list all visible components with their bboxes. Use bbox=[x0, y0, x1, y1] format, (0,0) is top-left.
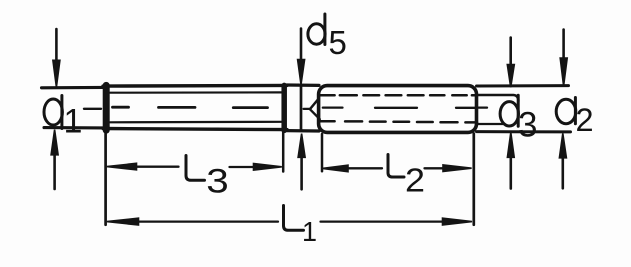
body bottom root line bbox=[110, 121, 283, 124]
dimension d1 top arrow bbox=[55, 29, 58, 61]
sleeve bottom dashed thread line bbox=[320, 121, 477, 122]
dimension d2 bottom arrow bbox=[559, 133, 566, 157]
cone point center dash bbox=[304, 108, 310, 110]
sleeve center dashed line bbox=[323, 106, 476, 109]
L1 dimension line bbox=[138, 220, 452, 222]
L3 left arrowhead bbox=[107, 163, 137, 170]
svg-text:1: 1 bbox=[302, 216, 317, 247]
L1 right arrowhead bbox=[443, 218, 473, 225]
cone point chevron bbox=[310, 99, 320, 120]
left pin bottom outline bbox=[44, 126, 104, 129]
left pin center line dash bbox=[84, 108, 101, 110]
label d3 letter d bbox=[500, 102, 518, 126]
right step pin bottom line (d3) bbox=[477, 123, 504, 125]
svg-text:5: 5 bbox=[329, 24, 347, 61]
body bottom outline bbox=[103, 129, 287, 130]
right step pin top line (d3) bbox=[477, 95, 519, 101]
label d1 letter d bbox=[44, 99, 62, 125]
body center line dash 2 bbox=[159, 106, 196, 109]
L3 left extension line bbox=[104, 131, 107, 225]
right step outer top line (d2) bbox=[477, 84, 569, 87]
label d5 letter d bbox=[308, 24, 325, 44]
right step outer bottom line (d2) bbox=[477, 130, 571, 133]
L2 right arrowhead bbox=[443, 165, 472, 172]
dimension d2 top arrow bbox=[562, 30, 565, 59]
d5 line crossing neck bbox=[300, 86, 303, 130]
sleeve rounded outline bbox=[319, 86, 477, 133]
L1 left arrowhead bbox=[107, 218, 139, 225]
dimension d3 bottom arrow bbox=[507, 132, 514, 157]
body top outline bbox=[103, 84, 287, 88]
svg-text:1: 1 bbox=[64, 102, 83, 140]
body left end bar bbox=[103, 85, 110, 130]
body right end bar bbox=[281, 85, 287, 130]
neck top outline bbox=[287, 83, 320, 87]
dimension d5 top arrow bbox=[300, 29, 303, 61]
svg-text:2: 2 bbox=[405, 162, 425, 199]
left pin top outline bbox=[42, 86, 105, 90]
dimension d5 bottom arrow bbox=[298, 134, 305, 158]
L2 left arrowhead bbox=[322, 165, 348, 172]
body top root line bbox=[110, 91, 283, 93]
label L1 letter L bbox=[284, 206, 304, 231]
L3 dimension line bbox=[135, 166, 255, 169]
body center line dash 3 bbox=[233, 106, 267, 109]
dimension d1 bottom arrow bbox=[51, 130, 58, 155]
dimension d3 top arrow bbox=[509, 38, 512, 66]
sleeve top dashed thread line bbox=[319, 94, 476, 97]
L2 dimension line bbox=[347, 167, 444, 169]
right step center dash bbox=[478, 106, 488, 108]
L3 right extension line bbox=[282, 132, 285, 172]
label L2 letter L bbox=[388, 155, 404, 178]
body center line dash 1 bbox=[113, 106, 129, 109]
label d2 letter d bbox=[556, 99, 576, 123]
neck bottom outline bbox=[287, 129, 320, 133]
svg-text:2: 2 bbox=[576, 102, 594, 138]
L2 left extension line bbox=[321, 134, 324, 171]
svg-text:3: 3 bbox=[518, 106, 537, 145]
label L3 letter L bbox=[186, 156, 205, 181]
svg-text:3: 3 bbox=[206, 163, 229, 201]
L3 right arrowhead bbox=[254, 164, 282, 171]
L2 right extension line bbox=[472, 134, 475, 225]
